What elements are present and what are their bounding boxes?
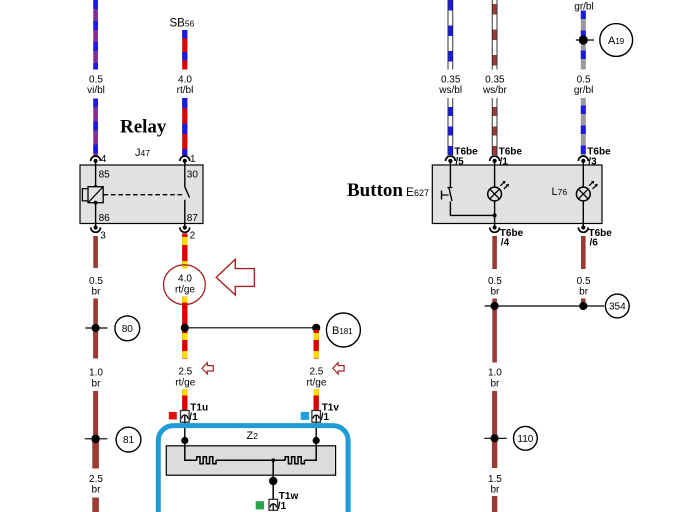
svg-text:87: 87 (187, 213, 199, 224)
value label 1.0 br middle (488, 368, 502, 390)
connector T6be/6 (578, 224, 588, 233)
wire vi/bl to relay pin 4 (93, 99, 98, 156)
heater element right lead (304, 441, 316, 461)
wire br through node 110 (492, 391, 497, 468)
heater resistor element left (197, 457, 216, 464)
value label 2.5 rt/ge right (306, 367, 326, 389)
wire ws/br to T6be/1 (492, 98, 498, 156)
switch contact E627 (442, 165, 495, 215)
relay contact 30-87 (185, 165, 190, 224)
wire rt/ge to T1v (314, 389, 319, 411)
svg-text:br: br (490, 485, 500, 496)
connector pin 1 (relay top right) (180, 156, 190, 165)
wire rt/ge through node B181 (182, 297, 187, 359)
wire ws/br top segment (492, 0, 498, 70)
relay coil K1 (82, 165, 103, 224)
wire rt/ge below node B181 (314, 328, 319, 359)
node circle 80 (115, 316, 140, 341)
svg-text:4.0: 4.0 (178, 74, 192, 85)
wire br 0.5 below T6be/4 (492, 236, 497, 269)
node circle A19 (600, 24, 633, 57)
relay J47 box (80, 165, 203, 224)
connector label T6be/6 (589, 228, 613, 248)
value label 0.5 br right (577, 276, 591, 298)
svg-text:4.0: 4.0 (178, 273, 192, 284)
heater element left lead (185, 441, 197, 461)
connector T6be/1 (490, 156, 500, 165)
wire br through node 354 (492, 299, 497, 363)
svg-text:86: 86 (99, 213, 111, 224)
connector pin 3 (relay bottom left) (91, 224, 101, 233)
svg-text:0.5: 0.5 (577, 276, 591, 287)
value label 0.35 ws/bl (438, 74, 462, 96)
svg-text:A19: A19 (608, 35, 625, 47)
heater center tap lead (272, 460, 274, 499)
connector label T6be/4 (500, 228, 524, 248)
lamp L76 (576, 165, 597, 224)
svg-text:br: br (490, 287, 500, 298)
svg-text:br: br (490, 378, 500, 389)
annotation red ellipse (164, 265, 206, 305)
value label 1.5 br (488, 474, 502, 496)
node circle B181 (326, 313, 360, 347)
svg-text:4: 4 (101, 154, 107, 165)
svg-text:/1: /1 (278, 501, 287, 512)
wire br right stub to node 354 (581, 299, 586, 307)
wire stem T1u to Z2 (184, 422, 186, 440)
svg-text:/4: /4 (501, 237, 510, 248)
connector T1w (269, 499, 278, 510)
value label 0.5 br middle (488, 276, 502, 298)
svg-text:rt/bl: rt/bl (177, 85, 194, 96)
heated rear window Z2 body (166, 446, 335, 475)
connector T1v (312, 411, 321, 423)
junction dot 354 left (491, 302, 499, 310)
annotation small red arrow right (333, 363, 344, 374)
value label 0.5 gr/bl (574, 74, 593, 96)
wire rt/bl to relay pin 1 (182, 98, 187, 156)
wire br 0.5 below pin 3 (93, 236, 98, 268)
svg-text:3: 3 (100, 231, 106, 242)
svg-text:1.5: 1.5 (488, 474, 502, 485)
junction dot center tap (269, 477, 277, 485)
node 354 junction link (485, 305, 605, 307)
svg-text:0.35: 0.35 (485, 74, 505, 85)
svg-text:110: 110 (517, 434, 533, 445)
switch-lamp junction dot (493, 213, 497, 217)
wire link node to node B181 (185, 327, 316, 329)
junction dot Z2 left (181, 437, 188, 444)
svg-text:B181: B181 (332, 325, 353, 337)
node 81 junction (85, 435, 108, 444)
annotation blue highlight box around Z2 (158, 426, 348, 512)
svg-text:/1: /1 (321, 412, 330, 423)
svg-text:br: br (92, 287, 102, 298)
svg-text:354: 354 (609, 302, 626, 313)
annotation red square marker (169, 412, 177, 420)
svg-text:L76: L76 (552, 186, 568, 198)
svg-text:0.5: 0.5 (488, 276, 502, 287)
wire rt/ge below pin 2 (182, 234, 187, 269)
svg-text:1: 1 (190, 154, 196, 165)
node circle 354 (605, 294, 629, 318)
svg-text:81: 81 (123, 435, 135, 446)
connector pin 4 (relay top left) (91, 156, 101, 165)
connector label T6be/3 (587, 147, 611, 168)
svg-text:Button: Button (347, 180, 403, 201)
heater center tap junction (271, 458, 275, 462)
wire rt/ge to T1u (182, 389, 187, 411)
annotation green square marker (256, 501, 264, 509)
relay coil-contact dashed link (104, 194, 184, 196)
value label 1.0 br (89, 368, 103, 390)
connector T6be/4 (490, 224, 500, 233)
svg-text:br: br (579, 287, 589, 298)
connector label T6be/1 (499, 147, 523, 168)
value label 4.0 rt/bl (177, 74, 194, 96)
value label 2.5 rt/ge left (175, 367, 195, 389)
svg-text:gr/bl: gr/bl (574, 85, 593, 96)
svg-text:0.5: 0.5 (89, 74, 103, 85)
heater center link (216, 459, 285, 461)
wire ws/bl top segment (448, 0, 454, 70)
annotation small red arrow left (202, 363, 213, 374)
junction dot Z2 right (313, 437, 320, 444)
junction dot right (312, 324, 320, 332)
value label 2.5 br (89, 474, 103, 496)
junction dot left (181, 324, 189, 332)
button E627 box (432, 165, 602, 224)
node 110 junction (484, 434, 506, 442)
svg-text:Relay: Relay (120, 116, 167, 137)
svg-text:2.5: 2.5 (309, 367, 323, 378)
connector T6be/5 (446, 156, 456, 165)
svg-text:85: 85 (99, 170, 111, 181)
svg-text:0.5: 0.5 (577, 74, 591, 85)
value label 0.35 ws/br (482, 74, 508, 96)
svg-text:vi/bl: vi/bl (87, 85, 105, 96)
node 80 junction (85, 324, 107, 332)
svg-text:ws/bl: ws/bl (438, 85, 462, 96)
wire br 0.5 below T6be/6 (581, 236, 586, 269)
svg-text:30: 30 (187, 170, 199, 181)
svg-text:2.5: 2.5 (178, 367, 192, 378)
svg-text:/6: /6 (590, 237, 599, 248)
svg-text:0.5: 0.5 (89, 276, 103, 287)
wire gr/bl to T6be/3 (581, 98, 586, 156)
svg-text:SB56: SB56 (170, 18, 195, 30)
svg-text:br: br (92, 485, 102, 496)
svg-text:/1: /1 (189, 412, 198, 423)
value label 0.5 vi/bl (87, 74, 105, 96)
wire gr/bl top segment (581, 11, 586, 70)
svg-text:ws/br: ws/br (482, 85, 508, 96)
svg-text:br: br (92, 378, 102, 389)
wire br through node 80 (93, 299, 98, 359)
node circle 110 (514, 426, 538, 450)
wire br through node 81 (93, 391, 98, 469)
lamp (illumination) middle (488, 165, 509, 224)
wire br bottom stub (92, 498, 99, 512)
svg-text:80: 80 (122, 324, 134, 335)
svg-text:rt/ge: rt/ge (175, 284, 195, 295)
connector T1u (181, 411, 190, 423)
wire stem T1v to Z2 (315, 422, 317, 440)
annotation big red arrow (216, 259, 254, 295)
svg-text:Z2: Z2 (247, 430, 259, 442)
svg-text:1.0: 1.0 (488, 368, 502, 379)
wire rt/bl top segment (182, 30, 187, 70)
value label 4.0 rt/ge (175, 273, 195, 295)
svg-text:rt/ge: rt/ge (306, 377, 326, 388)
svg-text:2: 2 (190, 231, 196, 242)
junction dot 354 right (579, 302, 587, 310)
value label 0.5 br (89, 276, 103, 298)
heater resistor element right (285, 457, 304, 464)
svg-text:2.5: 2.5 (89, 474, 103, 485)
node A19 junction (576, 35, 594, 44)
svg-text:rt/ge: rt/ge (175, 377, 195, 388)
connector T6be/3 (578, 156, 588, 165)
svg-text:J47: J47 (135, 147, 150, 159)
connector label T6be/5 (454, 147, 478, 168)
node circle 81 (116, 427, 141, 452)
annotation blue square marker (301, 412, 309, 420)
connector pin 2 (relay bottom right) (180, 224, 190, 233)
wire br bottom stub middle (492, 496, 497, 512)
wire ws/bl to T6be/5 (448, 98, 454, 156)
wire vi/bl top segment (93, 0, 98, 70)
svg-text:0.35: 0.35 (441, 74, 461, 85)
svg-text:1.0: 1.0 (89, 368, 103, 379)
svg-text:E627: E627 (406, 185, 429, 199)
